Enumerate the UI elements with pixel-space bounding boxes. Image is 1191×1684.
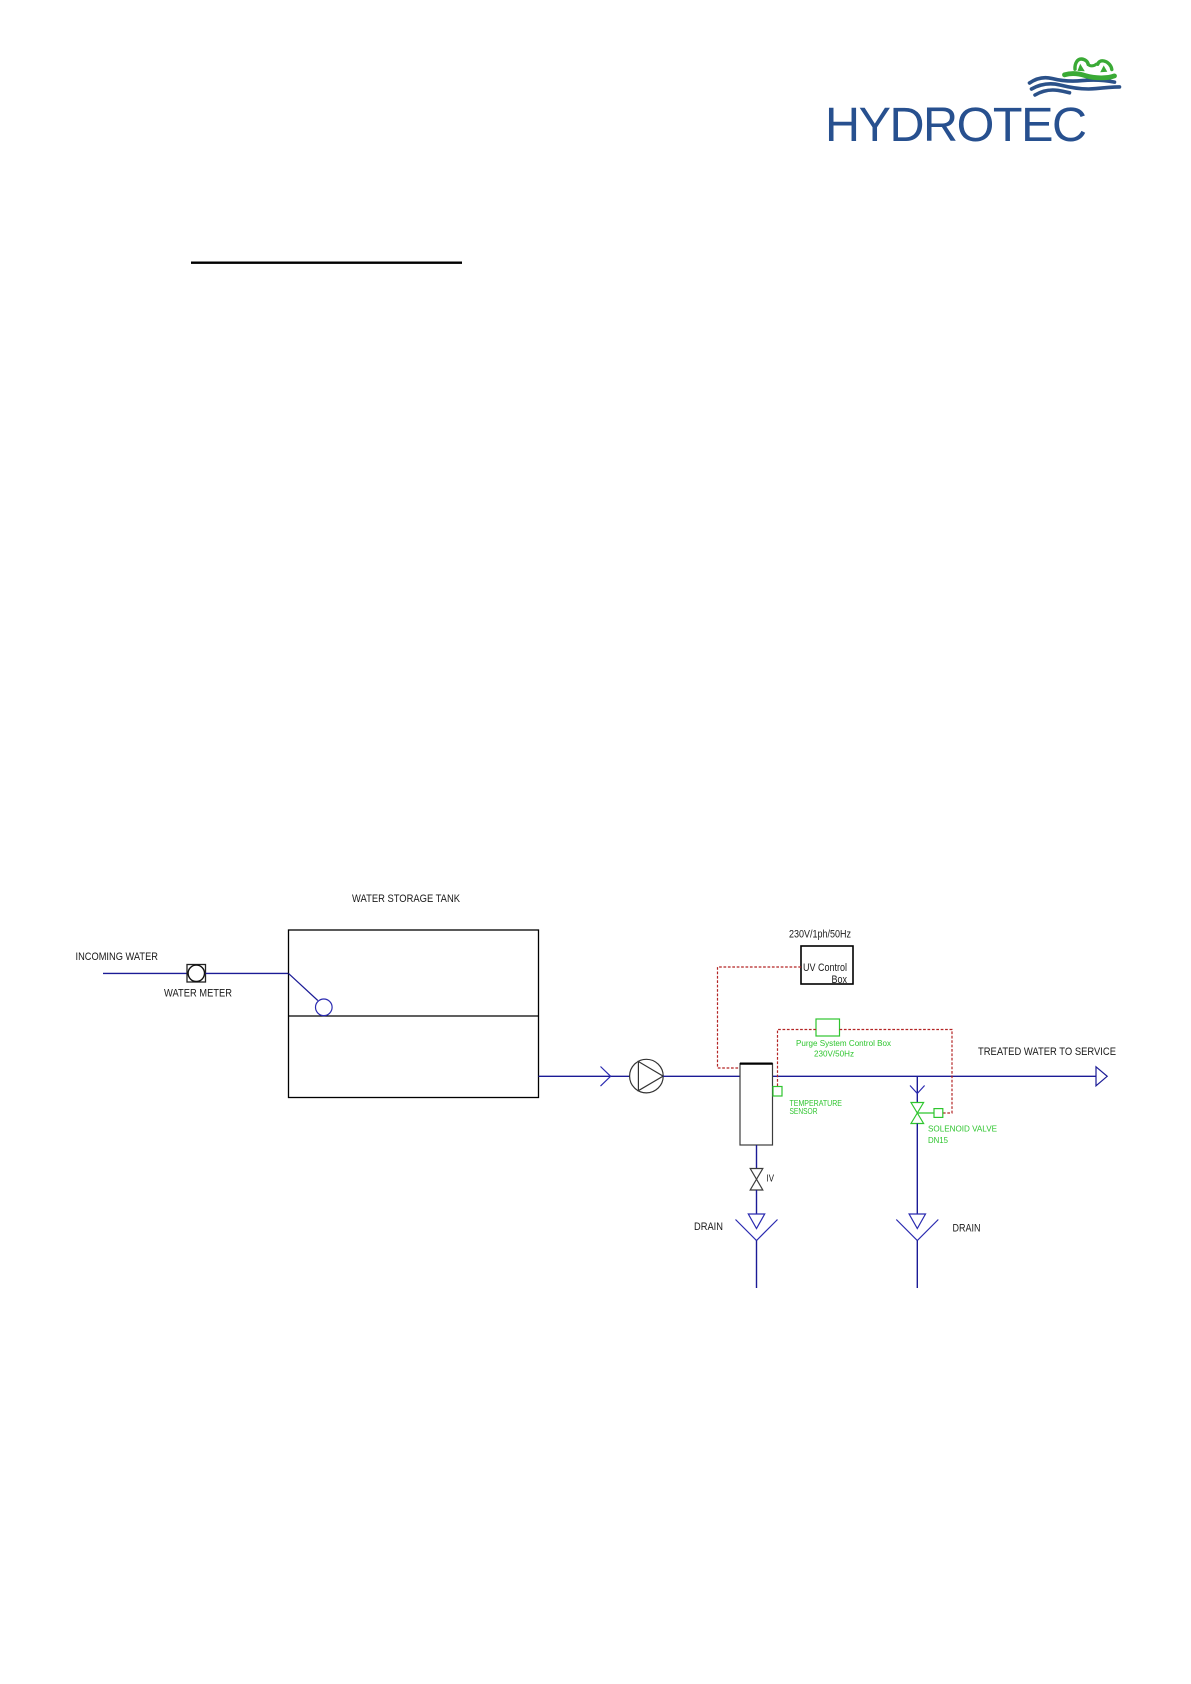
flow arrow before pump: [601, 1067, 611, 1087]
purge system control box: [816, 1019, 840, 1036]
pipe: branch down to solenoid valve: [916, 1076, 918, 1102]
svg-text:230V/1ph/50Hz: 230V/1ph/50Hz: [789, 929, 851, 941]
pipe: left drain tundish outlet: [756, 1241, 758, 1289]
pipe: right drain tundish outlet: [916, 1241, 918, 1289]
svg-text:WATER STORAGE TANK: WATER STORAGE TANK: [352, 893, 461, 905]
pipe: meter to tank: [206, 972, 290, 974]
pipe: incoming water to meter: [103, 972, 187, 974]
solenoid actuator stem: [917, 1112, 934, 1114]
svg-text:TREATED WATER TO SERVICE: TREATED WATER TO SERVICE: [978, 1046, 1116, 1058]
service arrow: [1096, 1067, 1107, 1086]
float valve arm: [289, 973, 318, 1000]
svg-text:SENSOR: SENSOR: [790, 1106, 818, 1116]
solenoid valve SV: [911, 1103, 924, 1124]
UV chamber top cap (bold): [740, 1062, 773, 1064]
svg-text:HYDROTEC: HYDROTEC: [825, 98, 1087, 152]
isolation valve IV: [750, 1169, 763, 1191]
pipe: pump to service arrow: [663, 1075, 1096, 1077]
control wire: purge box dashed loop left (to temperature sensor): [778, 1030, 817, 1087]
temperature sensor: [773, 1087, 782, 1097]
svg-text:UV Control: UV Control: [803, 962, 847, 974]
pipe: solenoid valve to right drain: [916, 1124, 918, 1215]
svg-text:INCOMING WATER: INCOMING WATER: [76, 951, 159, 963]
svg-text:Box: Box: [832, 974, 848, 986]
svg-text:DN15: DN15: [928, 1135, 948, 1145]
left drain funnel: [736, 1220, 778, 1241]
control wire: UV control box to UV chamber (dashed): [718, 967, 802, 1068]
heading underline rule: [191, 262, 462, 264]
pipe: IV valve to left drain: [756, 1190, 758, 1214]
water meter dial: [188, 965, 204, 981]
flow arrow to solenoid: [910, 1086, 925, 1094]
right drain funnel: [896, 1220, 938, 1241]
svg-text:Purge System Control Box: Purge System Control Box: [796, 1038, 892, 1048]
svg-text:WATER METER: WATER METER: [164, 988, 232, 1000]
svg-text:DRAIN: DRAIN: [953, 1223, 981, 1235]
tank water level line: [289, 1015, 539, 1017]
solenoid actuator box: [934, 1109, 943, 1118]
pipe: tank outlet to pump: [539, 1075, 630, 1077]
water meter body: [187, 965, 206, 983]
logo waves: [1030, 78, 1120, 95]
control wire: purge box dashed loop right (to solenoid valve): [840, 1030, 953, 1114]
logo crocodile head: [1065, 59, 1115, 78]
svg-text:IV: IV: [767, 1174, 775, 1185]
UV chamber: [740, 1064, 773, 1146]
pump impeller triangle: [638, 1062, 663, 1091]
logo crocodile eyes (pupils): [1078, 64, 1108, 72]
water storage tank: [289, 930, 539, 1098]
pipe: UV chamber to drain valve IV: [756, 1145, 758, 1169]
svg-text:SOLENOID VALVE: SOLENOID VALVE: [928, 1124, 997, 1134]
float valve ball: [316, 999, 333, 1016]
svg-text:DRAIN: DRAIN: [694, 1221, 723, 1233]
svg-text:230V/50Hz: 230V/50Hz: [814, 1049, 854, 1059]
right drain arrow: [909, 1214, 925, 1229]
pump circle: [630, 1059, 664, 1093]
UV control box: [801, 946, 853, 984]
left drain arrow: [748, 1214, 764, 1229]
